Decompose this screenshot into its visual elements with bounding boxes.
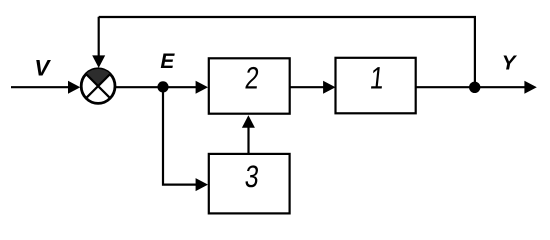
arrow down into summing junction top (92, 55, 105, 68)
wire feedback vertical drop into summing junction (98, 17, 100, 57)
wire summing junction to node E (115, 86, 163, 88)
arrow up into block 2 bottom (242, 115, 255, 128)
output node dot (469, 82, 480, 93)
wire block 1 to output node (416, 86, 475, 88)
svg-text:E: E (160, 50, 175, 73)
arrow into block 3 left (196, 178, 208, 191)
wire block 2 to block 1 (290, 86, 324, 88)
wire block 3 top to block 2 bottom (247, 126, 249, 154)
wire feedback top horizontal (99, 17, 475, 87)
block 3 (209, 154, 290, 214)
wire node E to block 2 (163, 86, 197, 88)
label Y (502, 52, 518, 75)
label V (34, 55, 51, 80)
node E dot (157, 81, 168, 92)
wire output node to Y arrow (475, 86, 526, 88)
arrow into block 2 left (196, 81, 208, 94)
arrow into block 1 left (323, 81, 335, 94)
summing junction filled top quadrant (86, 69, 110, 86)
svg-text:Y: Y (502, 52, 518, 75)
summing junction X diagonal 2 (86, 74, 110, 98)
summing junction circle (81, 69, 115, 104)
wire input V line (11, 86, 70, 88)
svg-text:V: V (34, 55, 51, 80)
block 2 (209, 58, 290, 113)
block 1 (336, 58, 416, 114)
label E (160, 50, 175, 73)
arrow output Y (524, 81, 536, 94)
wire node E down and right to block 3 (163, 87, 197, 185)
summing junction X diagonal 1 (86, 74, 110, 98)
arrow into summing junction from left (68, 81, 80, 94)
